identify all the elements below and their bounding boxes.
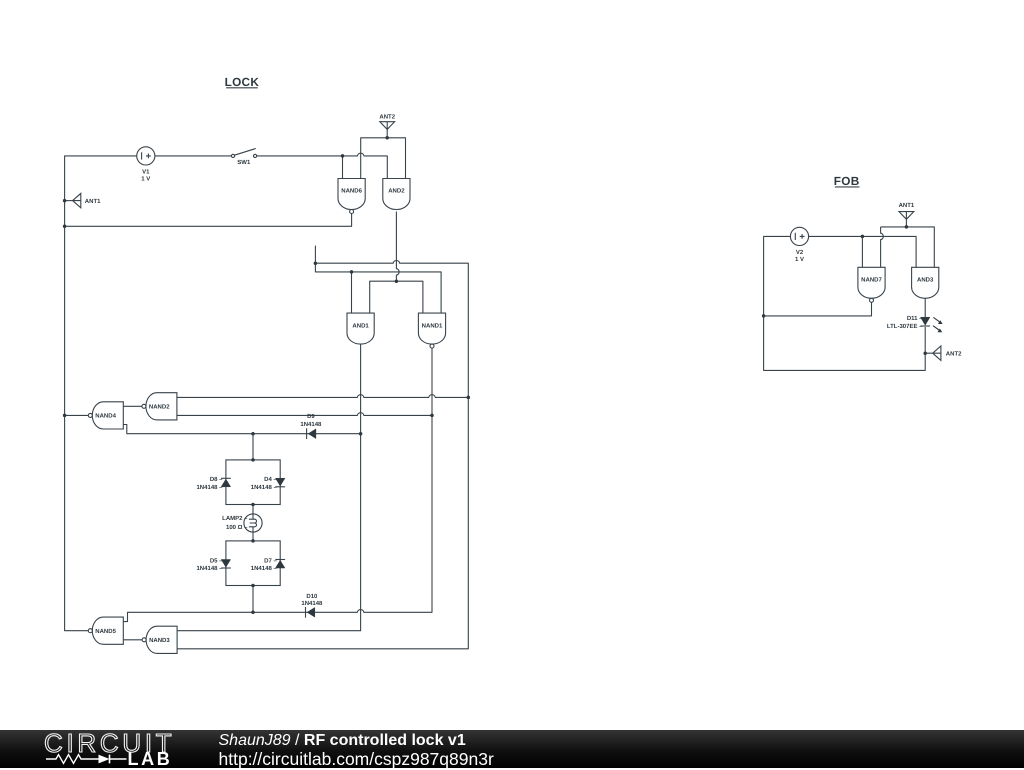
wire ANT2 net to NAND6 input B and AND2 input B <box>361 138 406 179</box>
node junction NAND2 input B / NAND1 output <box>430 414 434 418</box>
node junction D9 rail / lamp chain <box>251 432 255 436</box>
wire NAND3 output to NAND5 input B <box>123 639 142 641</box>
node junction left rail / ANT1 <box>63 199 67 203</box>
svg-text:NAND6: NAND6 <box>341 188 362 195</box>
svg-text:V2: V2 <box>796 249 804 256</box>
svg-text:LOCK: LOCK <box>225 75 260 89</box>
diode D10 1N4148 <box>301 593 323 618</box>
node junction ANT1 stem <box>905 225 909 229</box>
wire AND1 output down to NAND3 input A <box>177 344 361 631</box>
wire SW1 to AND2 input A <box>257 153 388 178</box>
svg-text:FOB: FOB <box>834 174 860 188</box>
svg-text:AND2: AND2 <box>388 188 405 195</box>
svg-text:AND3: AND3 <box>917 277 934 284</box>
voltage source V1 1 V <box>137 147 155 183</box>
svg-text:NAND2: NAND2 <box>149 404 170 411</box>
svg-text:D8 –: D8 – <box>210 476 223 483</box>
wire NAND2 input B to NAND1 output <box>177 413 432 416</box>
diode D9 1N4148 <box>300 413 322 439</box>
wire box 1 to LAMP2 <box>252 505 254 514</box>
svg-text:D11 –: D11 – <box>907 315 923 322</box>
node junction lamp chain / D10 rail <box>251 611 255 615</box>
op-amp-style gate AND2 <box>383 179 410 210</box>
wire node to NAND6 input A <box>342 156 344 179</box>
svg-text:ANT2: ANT2 <box>946 351 962 358</box>
wire AND2 output down to node <box>396 212 399 282</box>
node junction left rail / NAND4 output <box>63 414 67 418</box>
logic gate NAND7 <box>858 267 885 302</box>
antenna ANT1 (lock) <box>73 193 102 207</box>
diode D8 1N4148 <box>196 476 230 491</box>
svg-text:D7 –: D7 – <box>264 557 277 564</box>
CIRCUIT LAB logo <box>44 732 180 768</box>
antenna ANT1 (fob) <box>899 202 915 227</box>
wire diode box 2 (D5/D7 bridge) <box>226 541 280 586</box>
LED D11 LTL-307EE <box>887 315 943 332</box>
diode D5 1N4148 <box>196 557 230 572</box>
wire V1 to SW1 <box>155 155 232 157</box>
node junction box2 bottom <box>251 584 255 588</box>
wire node A horizontal to right vertical rail down to NAND3 input B <box>177 261 468 649</box>
svg-text:1N4148: 1N4148 <box>300 421 322 428</box>
wire NAND6 output to left rail <box>65 214 352 227</box>
node junction AND1 input A <box>350 270 354 274</box>
node junction ANT2 / gate inputs <box>385 136 389 140</box>
logic gate NAND6 <box>338 179 365 214</box>
node junction NAND2 input A / right rail <box>467 396 471 400</box>
svg-text:LTL-307EE –: LTL-307EE – <box>887 323 923 330</box>
svg-text:1 V: 1 V <box>795 256 804 263</box>
logic gate NAND2 <box>142 393 177 420</box>
svg-text:100 Ω –: 100 Ω – <box>226 524 248 531</box>
svg-text:NAND1: NAND1 <box>422 322 443 329</box>
svg-text:ANT1: ANT1 <box>899 202 915 209</box>
svg-text:D4 –: D4 – <box>264 476 277 483</box>
voltage source V2 1 V <box>790 227 808 263</box>
node junction LED cathode / ANT2 <box>923 351 927 355</box>
wire NAND2 output to NAND4 input A <box>123 405 142 407</box>
svg-text:1N4148 –: 1N4148 – <box>196 565 223 572</box>
wire node A to AND1 input A rail and NAND1 input B <box>315 263 441 313</box>
wire LAMP2 to box 2 <box>252 532 254 541</box>
wire V2 to AND3 input A <box>809 236 917 267</box>
wire AND3 output to LED D11 <box>924 298 926 317</box>
node junction NAND7 return / left rail <box>762 314 766 318</box>
wire ANT1 net to NAND7 input B and AND3 input B <box>881 227 935 267</box>
svg-text:1N4148 –: 1N4148 – <box>251 565 278 572</box>
wire drop to AND1 input A <box>351 272 353 313</box>
antenna ANT2 (lock) <box>379 113 395 138</box>
logic gate NAND5 <box>88 617 123 644</box>
svg-text:D5 –: D5 – <box>210 557 223 564</box>
wire NAND4 input B via D9 to AND1 output <box>123 425 360 434</box>
wire NAND7 output to left rail <box>764 302 872 316</box>
svg-text:1N4148 –: 1N4148 – <box>251 484 278 491</box>
wire rail to ANT1 <box>65 200 73 202</box>
svg-text:NAND4: NAND4 <box>95 413 116 420</box>
node junction V2 wire / NAND7 input A <box>861 235 865 239</box>
node junction AND2 output <box>395 279 399 283</box>
antenna ANT2 (fob) <box>925 346 962 360</box>
logic gate AND3 <box>912 267 939 298</box>
diode D7 1N4148 <box>251 557 285 572</box>
svg-text:NAND3: NAND3 <box>149 637 170 644</box>
wire NAND1 output down and left to NAND5 input A <box>123 348 432 621</box>
logic gate NAND4 <box>88 402 123 429</box>
node junction box1 bottom <box>251 503 255 507</box>
wire left rail from V1 to NAND5 output <box>65 156 137 631</box>
svg-text:ANT1: ANT1 <box>85 198 101 205</box>
wire drop to NAND7 input A <box>861 236 863 267</box>
svg-text:D10: D10 <box>306 593 318 600</box>
node junction SW1 wire / NAND6 input A <box>341 154 345 158</box>
svg-text:NAND5: NAND5 <box>95 628 116 635</box>
svg-text:NAND7: NAND7 <box>861 277 882 284</box>
node junction box2 top <box>251 539 255 543</box>
diode D4 1N4148 <box>251 476 285 491</box>
svg-text:AND1: AND1 <box>352 322 369 329</box>
svg-text:D9: D9 <box>307 413 315 420</box>
svg-text:1N4148: 1N4148 <box>301 600 323 607</box>
section title LOCK <box>225 75 260 89</box>
node junction box1 top <box>251 458 255 462</box>
svg-text:V1: V1 <box>142 168 150 175</box>
switch SW1 <box>231 149 256 167</box>
svg-text:1 V: 1 V <box>141 175 150 182</box>
wire AND1 input B to NAND1 input A via AND2 output node <box>370 281 423 313</box>
wire NAND2 input A to right rail <box>177 395 468 398</box>
svg-text:ANT2: ANT2 <box>379 113 395 120</box>
svg-text:SW1: SW1 <box>237 159 251 166</box>
wire stub above node A <box>314 246 316 264</box>
wire NAND4 output to left rail <box>65 414 89 416</box>
svg-text:LAMP2 –: LAMP2 – <box>222 515 248 522</box>
wire diode box 1 (D8/D4 bridge) <box>226 460 280 505</box>
section title FOB <box>834 174 860 188</box>
wire node to diode box 1 <box>252 434 254 460</box>
wire FOB left rail and bottom rail <box>764 236 926 370</box>
node A junction <box>314 261 318 265</box>
logic gate NAND1 <box>418 313 445 348</box>
lamp LAMP2 100 Ohm <box>222 514 262 532</box>
node junction left rail / NAND6 return <box>63 225 67 229</box>
node junction D9 rail / AND1 output <box>359 432 363 436</box>
logic gate AND1 <box>347 313 374 344</box>
wire box 2 down to D10 rail <box>252 586 254 613</box>
logic gate NAND3 <box>142 626 177 653</box>
svg-text:1N4148 –: 1N4148 – <box>196 484 223 491</box>
